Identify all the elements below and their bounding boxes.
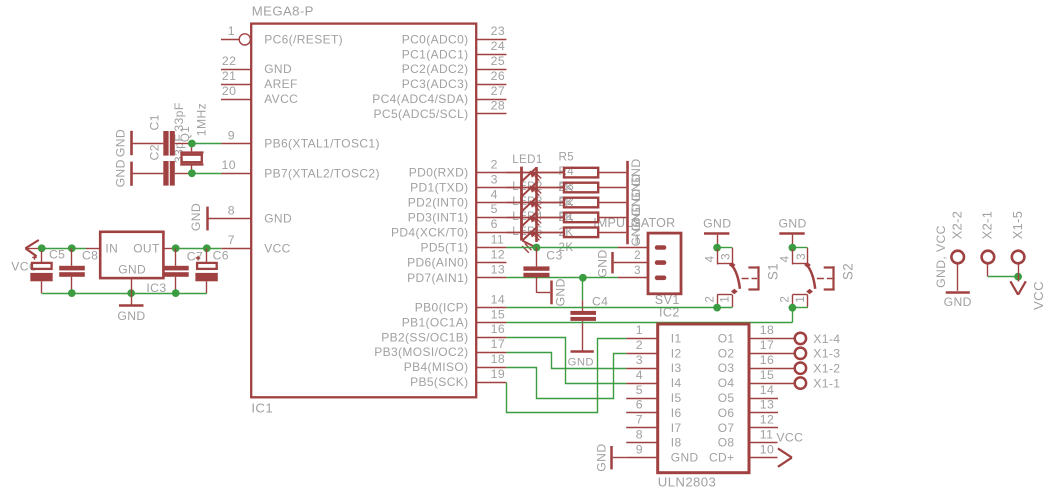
svg-text:8: 8 — [228, 203, 235, 217]
svg-text:I6: I6 — [671, 406, 682, 420]
svg-text:I4: I4 — [671, 376, 682, 390]
svg-text:2: 2 — [703, 296, 716, 303]
power VCC at IC2 pin 10 — [778, 448, 792, 457]
junction XTAL1 — [188, 140, 196, 148]
pin 1 PC6(/RESET) with bubble — [221, 39, 239, 41]
IC2 pin 4 stub — [626, 383, 658, 385]
svg-text:4: 4 — [779, 255, 792, 262]
svg-text:GND: GND — [596, 249, 610, 277]
capacitor C2 — [163, 161, 168, 186]
svg-text:GND: GND — [114, 159, 128, 187]
wire S2 top pins — [792, 247, 807, 249]
X2-2 stem to ground — [957, 264, 959, 291]
LED LED3 diode — [522, 198, 536, 211]
svg-text:PB0(ICP): PB0(ICP) — [415, 301, 469, 315]
svg-text:15: 15 — [491, 307, 505, 321]
junction S2 bottom — [789, 304, 797, 312]
svg-text:6: 6 — [491, 217, 498, 231]
svg-text:14: 14 — [760, 383, 774, 397]
pin 23 stub — [476, 39, 506, 41]
svg-text:PD4(XCK/T0): PD4(XCK/T0) — [391, 225, 469, 239]
svg-text:PC4(ADC4/SDA): PC4(ADC4/SDA) — [372, 92, 468, 106]
svg-text:2: 2 — [634, 249, 641, 262]
IC2 pin 1 stub — [626, 338, 658, 340]
svg-text:9: 9 — [228, 128, 235, 142]
wire pin 14 to S1 — [506, 307, 732, 309]
SV1 pad 3 — [655, 276, 667, 281]
svg-text:X2-2: X2-2 — [950, 211, 965, 240]
pin 28 stub — [476, 113, 506, 115]
switch S1 contact blade — [729, 262, 736, 268]
svg-text:16: 16 — [760, 353, 774, 367]
IC2 pin 12 stub — [749, 427, 778, 429]
pin 5 stub — [476, 217, 506, 219]
power VCC arrow below X1-5 — [1010, 281, 1018, 294]
svg-text:GND: GND — [117, 309, 145, 323]
svg-text:2: 2 — [779, 296, 792, 303]
op-amp U1 IC1 MEGA8-P body — [251, 24, 476, 398]
svg-text:C7: C7 — [187, 250, 203, 264]
switch S1 pin 2 leg — [717, 295, 719, 307]
svg-text:10: 10 — [760, 442, 774, 456]
svg-text:5: 5 — [636, 383, 643, 397]
regulator OUT pin — [163, 248, 173, 250]
svg-text:GND: GND — [264, 62, 292, 76]
svg-text:13: 13 — [760, 398, 774, 412]
IC2 pin 6 stub — [626, 412, 658, 414]
IC2 pin 8 stub — [626, 442, 658, 444]
svg-text:GND: GND — [114, 129, 128, 157]
svg-text:PD3(INT1): PD3(INT1) — [408, 210, 469, 224]
pin 22 — [221, 69, 251, 71]
svg-text:Q1: Q1 — [179, 126, 192, 142]
wire pin 16 to IC2 pin 4 — [506, 338, 626, 384]
svg-text:14: 14 — [491, 292, 505, 306]
crystal Q1 — [191, 144, 193, 152]
pin 25 stub — [476, 69, 506, 71]
svg-text:VCC: VCC — [264, 241, 290, 255]
regulator IN pin — [86, 248, 100, 250]
svg-text:PD1(TXD): PD1(TXD) — [410, 181, 468, 195]
svg-text:11: 11 — [760, 428, 774, 442]
ground symbol above S2 — [779, 232, 804, 235]
svg-text:PB1(OC1A): PB1(OC1A) — [402, 316, 469, 330]
junction at C6 top — [203, 244, 211, 252]
pad X1-1 — [795, 377, 806, 388]
svg-text:AREF: AREF — [264, 77, 298, 91]
pin 12 stub — [476, 262, 506, 264]
IC2 pin 13 stub — [749, 412, 778, 414]
LED chain right rail — [535, 167, 538, 242]
resistor R1 — [506, 232, 564, 234]
svg-text:12: 12 — [491, 247, 505, 261]
LED chain left rail — [520, 167, 523, 241]
wire LED junction to SV1 pin 1 — [537, 247, 619, 249]
junction at C7 top — [172, 244, 180, 252]
wire XTAL2 to pin 10 — [192, 173, 222, 175]
svg-text:20: 20 — [222, 84, 236, 98]
transistor array IC2 ULN2803 body — [658, 324, 749, 473]
svg-text:PD0(RXD): PD0(RXD) — [409, 166, 469, 180]
svg-text:1MHz: 1MHz — [195, 103, 209, 136]
junction regulator GND — [127, 289, 135, 297]
connector SV1 body — [648, 233, 681, 294]
resistor R4 — [506, 187, 564, 189]
IC2 pin 5 stub — [626, 398, 658, 400]
pin 16 stub — [476, 337, 506, 339]
switch S1 actuator dashed link — [742, 278, 758, 280]
svg-text:27: 27 — [491, 84, 505, 98]
S1 ground stem — [717, 235, 719, 245]
svg-text:GND: GND — [778, 217, 806, 231]
pin 2 stub — [476, 172, 506, 174]
switch S2 contact blade — [804, 262, 811, 268]
svg-text:O4: O4 — [718, 376, 735, 390]
pin 8 GND stub — [207, 218, 251, 220]
capacitor C3 — [536, 248, 538, 267]
pin 19 stub — [476, 382, 506, 384]
pad X1-5 — [1012, 251, 1025, 264]
svg-text:CD+: CD+ — [709, 451, 734, 465]
IC2 pin 7 stub — [626, 427, 658, 429]
svg-text:I2: I2 — [671, 346, 682, 360]
IC2 pin 11 stub — [749, 442, 778, 444]
svg-text:O8: O8 — [718, 436, 735, 450]
ground symbol for SV1 pin 2 — [611, 252, 614, 273]
ground symbol for IC2 pin 9 — [610, 446, 613, 469]
svg-text:6: 6 — [636, 398, 643, 412]
switch S2 pin 2 leg — [792, 295, 794, 307]
svg-text:24: 24 — [491, 39, 505, 53]
svg-text:GND: GND — [944, 295, 972, 309]
svg-text:X1-3: X1-3 — [813, 347, 840, 361]
pin 24 stub — [476, 54, 506, 56]
wire row pin 3 to LEDs — [506, 187, 564, 189]
svg-text:R5: R5 — [559, 150, 575, 163]
svg-text:PC6(/RESET): PC6(/RESET) — [264, 32, 343, 46]
svg-text:I5: I5 — [671, 391, 682, 405]
svg-text:X2-1: X2-1 — [980, 211, 995, 240]
svg-text:OUT: OUT — [133, 241, 160, 255]
svg-text:C8: C8 — [82, 249, 98, 263]
LED LED5 diode — [522, 228, 536, 241]
power VCC arrow left — [25, 240, 38, 248]
S2 ground stem — [792, 235, 794, 245]
IC2 pin 16 stub — [749, 368, 794, 370]
wire pin 15 to S2 — [506, 322, 792, 324]
svg-text:IC1: IC1 — [251, 401, 273, 416]
switch S1 pin 4 leg — [717, 249, 719, 265]
svg-text:S1: S1 — [765, 263, 780, 280]
svg-text:1: 1 — [634, 234, 641, 247]
wire row pin 4 to LEDs — [506, 202, 564, 204]
svg-text:21: 21 — [222, 69, 236, 83]
wire XTAL1 to pin 9 — [192, 143, 222, 145]
svg-text:PB6(XTAL1/TOSC1): PB6(XTAL1/TOSC1) — [264, 137, 380, 151]
pin 27 stub — [476, 99, 506, 101]
junction LED cathode — [533, 244, 541, 252]
junction at C5 top — [38, 244, 46, 252]
svg-text:PD2(INT0): PD2(INT0) — [408, 196, 469, 210]
pin 10 stub — [222, 173, 252, 175]
pin 17 stub — [476, 352, 506, 354]
IC2 pin 18 stub — [749, 338, 794, 340]
svg-text:GND, VCC: GND, VCC — [934, 225, 948, 288]
junction at C8 top — [68, 244, 76, 252]
svg-text:O1: O1 — [718, 331, 735, 345]
ground symbol above S1 — [704, 232, 729, 235]
pin 4 stub — [476, 202, 506, 204]
switch S1 pin 3 leg — [732, 248, 734, 265]
svg-text:28: 28 — [491, 99, 505, 113]
SV1 pad 1 — [655, 245, 667, 250]
wire pin 18 to IC2 pin 2 — [506, 354, 626, 399]
svg-text:I7: I7 — [671, 421, 682, 435]
svg-text:5: 5 — [491, 202, 498, 216]
svg-text:22: 22 — [222, 54, 236, 68]
ground symbol at pin 8 — [206, 207, 209, 231]
capacitor C8 — [71, 248, 73, 265]
svg-text:17: 17 — [491, 337, 505, 351]
svg-text:16: 16 — [491, 322, 505, 336]
X1-5 stem — [1018, 264, 1020, 281]
svg-text:PB7(XTAL2/TOSC2): PB7(XTAL2/TOSC2) — [264, 166, 380, 180]
wire C1 row — [133, 143, 164, 145]
junction X1-5 — [1014, 273, 1022, 281]
svg-text:4: 4 — [491, 187, 498, 201]
svg-text:ULN2803: ULN2803 — [658, 475, 716, 490]
pin 26 stub — [476, 84, 506, 86]
LED LED4 diode — [522, 213, 536, 226]
LED chain bottom diode to junction — [522, 241, 535, 247]
SV1 pad 2 — [655, 260, 667, 265]
svg-text:C6: C6 — [213, 249, 229, 263]
resistor R2 — [506, 217, 564, 219]
svg-text:O5: O5 — [718, 391, 735, 405]
svg-text:O2: O2 — [718, 346, 735, 360]
IC2 pin 3 stub — [626, 368, 658, 370]
pin 13 stub — [476, 277, 506, 279]
svg-text:23: 23 — [491, 24, 505, 38]
capacitor C7 — [175, 248, 177, 265]
svg-text:13: 13 — [491, 263, 505, 277]
ground symbol for C4 — [571, 350, 594, 353]
junction S2 top — [789, 244, 797, 252]
svg-text:PC1(ADC1): PC1(ADC1) — [402, 47, 469, 61]
svg-text:C5: C5 — [49, 248, 65, 262]
svg-text:11: 11 — [491, 232, 505, 246]
IC2 pin 15 stub — [749, 383, 794, 385]
capacitor C5 polarized — [41, 251, 43, 263]
wire S2 riser — [792, 308, 794, 323]
svg-text:GND: GND — [595, 443, 609, 471]
svg-text:C4: C4 — [592, 294, 608, 308]
junction XTAL2 — [188, 169, 196, 177]
svg-text:19: 19 — [491, 367, 505, 381]
voltage regulator IC3 body — [100, 232, 163, 278]
ground symbol below regulator — [131, 293, 133, 304]
LED LED2 diode — [522, 183, 536, 196]
ground symbol below X2-2 — [946, 291, 970, 294]
svg-text:1: 1 — [794, 296, 807, 303]
svg-text:GND: GND — [703, 217, 731, 231]
svg-text:X1-2: X1-2 — [813, 362, 840, 376]
junction C7 bottom — [172, 289, 180, 297]
svg-text:I3: I3 — [671, 361, 682, 375]
svg-text:PC5(ADC5/SCL): PC5(ADC5/SCL) — [374, 107, 469, 121]
svg-text:7: 7 — [636, 413, 643, 427]
svg-text:C3: C3 — [546, 249, 562, 263]
pin 20 — [221, 99, 251, 101]
resistor R5 — [506, 172, 564, 174]
svg-text:PB5(SCK): PB5(SCK) — [410, 375, 468, 389]
svg-text:C1: C1 — [148, 114, 162, 130]
svg-text:17: 17 — [760, 338, 774, 352]
regulator GND pin — [131, 278, 133, 293]
pin 21 — [221, 84, 251, 86]
svg-text:PD7(AIN1): PD7(AIN1) — [407, 271, 468, 285]
svg-text:O6: O6 — [718, 406, 735, 420]
svg-text:PD6(AIN0): PD6(AIN0) — [407, 256, 468, 270]
svg-text:VCC: VCC — [1031, 281, 1046, 310]
wire C2 row — [133, 173, 164, 175]
svg-text:IMPULSATOR: IMPULSATOR — [593, 216, 675, 230]
junction C4 top — [579, 274, 587, 282]
switch S1 pin 1 leg — [732, 295, 734, 307]
SV1 pin 3 stub — [618, 277, 648, 279]
wire row pin 5 to LEDs — [506, 217, 564, 219]
svg-text:GND: GND — [189, 203, 203, 231]
capacitor C6 polarized — [206, 248, 208, 263]
svg-text:25: 25 — [491, 54, 505, 68]
ground symbol for C1 — [130, 131, 133, 155]
pin 3 stub — [476, 187, 506, 189]
wire S1 top pins — [717, 247, 732, 249]
wire pin 11 to LED junction — [506, 247, 536, 249]
svg-text:PC3(ADC3): PC3(ADC3) — [402, 77, 469, 91]
ground symbol for C3 — [550, 281, 553, 305]
svg-text:1: 1 — [228, 24, 235, 38]
SV1 pin 1 stub — [618, 247, 648, 249]
svg-text:X1-4: X1-4 — [813, 332, 840, 346]
pad X2-2 — [951, 251, 964, 264]
svg-text:S2: S2 — [841, 263, 856, 280]
switch S2 pin 1 leg — [807, 295, 809, 307]
svg-text:PB3(MOSI/OC2): PB3(MOSI/OC2) — [374, 345, 468, 359]
svg-text:GND: GND — [568, 356, 594, 368]
svg-text:GND: GND — [118, 262, 146, 276]
switch S2 pin 3 leg — [807, 248, 809, 265]
ground bar for resistor array — [626, 161, 629, 244]
IC2 pin 2 stub — [626, 353, 658, 355]
pin 9 stub — [222, 143, 252, 145]
svg-text:2: 2 — [491, 157, 498, 171]
capacitor C1 — [163, 131, 168, 156]
SV1 pin 2 stub — [614, 262, 648, 264]
svg-text:PB2(SS/OC1B): PB2(SS/OC1B) — [381, 330, 468, 344]
svg-text:2: 2 — [636, 338, 643, 352]
wire X2-1 to X1-5 — [988, 276, 1018, 278]
pad X1-3 — [795, 348, 806, 359]
svg-text:10: 10 — [222, 158, 236, 172]
wire pin 19 to IC2 pin 1 — [507, 339, 627, 413]
pin 6 stub — [476, 232, 506, 234]
svg-text:VCC: VCC — [11, 259, 38, 273]
capacitor C4 — [582, 278, 584, 301]
resistor R3 — [506, 202, 564, 204]
switch S1 actuator bracket — [748, 266, 759, 268]
junction S1 top — [713, 244, 721, 252]
svg-text:O3: O3 — [718, 361, 735, 375]
svg-text:1: 1 — [719, 296, 732, 303]
IC2 pin 17 stub — [749, 353, 794, 355]
svg-text:4: 4 — [703, 255, 716, 262]
LED LED1 diode — [522, 168, 536, 181]
svg-text:PC2(ADC2): PC2(ADC2) — [402, 62, 469, 76]
wire S2 bottom pins — [792, 307, 808, 309]
pad X1-4 — [795, 333, 806, 344]
wire OUT to pin 7 — [173, 248, 221, 250]
IC2 pin 10 stub — [749, 457, 778, 459]
svg-text:3: 3 — [720, 253, 733, 260]
switch S2 actuator dashed link — [817, 278, 833, 280]
svg-text:26: 26 — [491, 69, 505, 83]
svg-text:MEGA8-P: MEGA8-P — [252, 4, 314, 19]
wire row pin 2 to LEDs — [506, 172, 564, 174]
svg-text:X1-1: X1-1 — [813, 377, 840, 391]
pad X2-1 — [982, 251, 995, 264]
svg-text:C2: C2 — [148, 144, 162, 160]
svg-text:IN: IN — [105, 241, 118, 255]
pin 11 stub — [476, 247, 506, 249]
switch S2 pin 4 leg — [792, 249, 794, 265]
IC2 pin 9 stub — [626, 457, 658, 459]
svg-text:AVCC: AVCC — [264, 92, 298, 106]
svg-text:I8: I8 — [671, 436, 682, 450]
svg-text:VCC: VCC — [776, 431, 803, 445]
svg-text:3: 3 — [634, 264, 641, 277]
svg-text:GND: GND — [671, 451, 699, 465]
pin 7 VCC stub — [221, 248, 251, 250]
svg-text:O7: O7 — [718, 421, 735, 435]
switch S2 actuator bracket — [824, 266, 835, 268]
pin 18 stub — [476, 367, 506, 369]
svg-text:GND: GND — [554, 278, 568, 306]
svg-text:PC0(ADC0): PC0(ADC0) — [402, 32, 469, 46]
svg-text:9: 9 — [636, 442, 643, 456]
svg-text:PB4(MISO): PB4(MISO) — [404, 360, 469, 374]
wire regulator ground bus — [42, 293, 207, 295]
svg-text:3: 3 — [795, 253, 808, 260]
svg-text:I1: I1 — [671, 331, 682, 345]
wire row pin 6 to LEDs — [506, 232, 564, 234]
wire pin 13 to SV1 pin 3 — [506, 277, 618, 279]
junction C8 bottom — [68, 289, 76, 297]
pin 14 stub — [476, 307, 506, 309]
pad X1-2 — [795, 363, 806, 374]
svg-text:8: 8 — [636, 428, 643, 442]
wire VCC to regulator IN — [42, 248, 86, 250]
junction S1 bottom — [713, 304, 721, 312]
svg-text:18: 18 — [760, 323, 774, 337]
svg-text:1: 1 — [636, 323, 643, 337]
svg-text:7: 7 — [228, 233, 235, 247]
X2-1 stem — [987, 264, 989, 276]
svg-text:LED1: LED1 — [512, 153, 543, 166]
svg-text:18: 18 — [491, 352, 505, 366]
IC2 pin 14 stub — [749, 398, 778, 400]
ground symbol for C2 — [130, 162, 133, 186]
